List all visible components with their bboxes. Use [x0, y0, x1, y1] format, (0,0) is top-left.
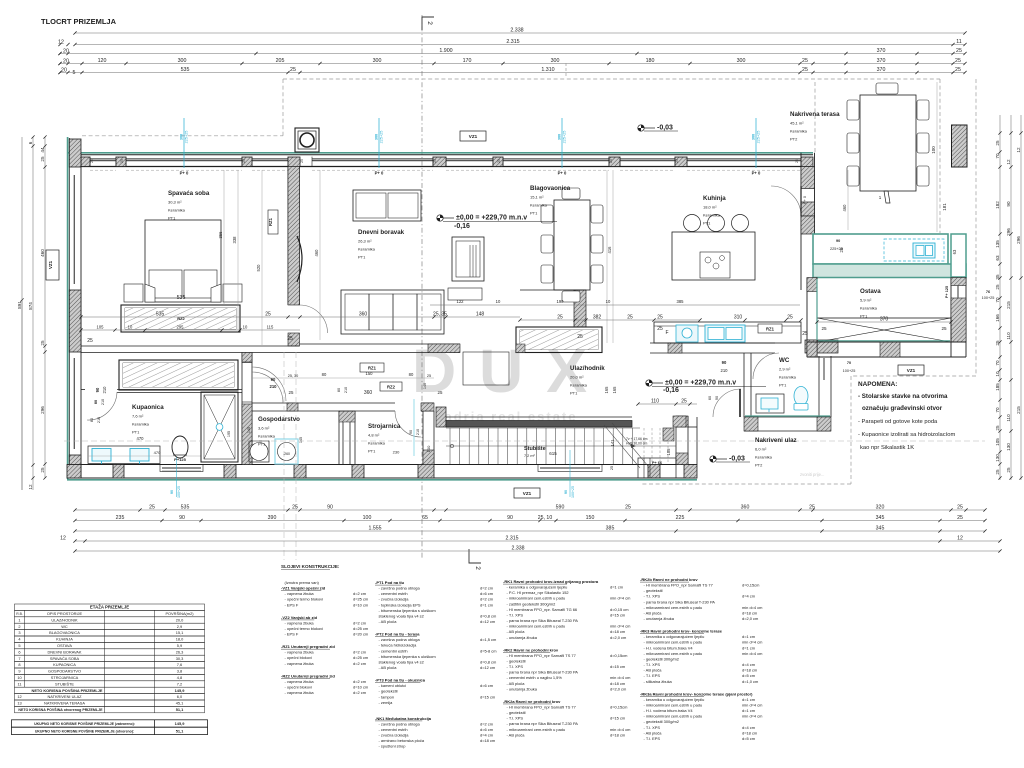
svg-text:WC: WC	[61, 624, 68, 629]
svg-text:- zvučna izolacija: - zvučna izolacija	[379, 733, 410, 738]
svg-text:90: 90	[95, 387, 100, 392]
living small table	[448, 288, 482, 300]
svg-text:20: 20	[61, 68, 67, 74]
svg-text:- HI membrana FPO_npr Sarnafil: - HI membrana FPO_npr Sarnafil TS 77	[507, 653, 576, 658]
svg-text:90: 90	[836, 239, 840, 243]
svg-text:90: 90	[507, 515, 513, 521]
svg-text:90: 90	[271, 377, 276, 382]
svg-text:20,0 m²: 20,0 m²	[570, 375, 584, 380]
svg-text:25: 25	[497, 159, 501, 163]
svg-text:520: 520	[256, 264, 261, 272]
svg-text:25: 25	[242, 159, 246, 163]
svg-text:25, 10: 25, 10	[538, 515, 553, 521]
svg-text:P+ 0: P+ 0	[803, 196, 807, 204]
bedroom door arc	[300, 305, 328, 333]
svg-text:25: 25	[287, 336, 293, 342]
svg-text:25: 25	[40, 156, 45, 162]
svg-text:d=1 cm: d=1 cm	[480, 602, 494, 607]
svg-text:d=18 cm: d=18 cm	[742, 668, 758, 673]
svg-text:356: 356	[218, 231, 223, 239]
svg-text:d=2 cm: d=2 cm	[480, 597, 494, 602]
hodnik-entry wall piece	[688, 426, 697, 428]
svg-text:3,6 m²: 3,6 m²	[258, 426, 270, 431]
svg-text:- opečni termo blokovi: - opečni termo blokovi	[285, 597, 324, 602]
svg-text:d=4 cm: d=4 cm	[480, 733, 494, 738]
svg-text:Spavaća soba: Spavaća soba	[168, 190, 210, 197]
svg-text:- vapnena žbuka: - vapnena žbuka	[285, 591, 315, 596]
bottom dim row 3	[75, 530, 985, 532]
svg-text:- vapnena žbuka: - vapnena žbuka	[285, 661, 315, 666]
svg-text:OPIS PROSTORIJE: OPIS PROSTORIJE	[47, 611, 83, 616]
svg-text:141: 141	[610, 439, 615, 447]
svg-text:590: 590	[556, 505, 565, 511]
svg-text:PT1: PT1	[570, 391, 578, 396]
svg-text:100+25: 100+25	[843, 369, 856, 373]
sofa living room	[341, 290, 444, 334]
svg-text:VZ1: VZ1	[469, 134, 478, 139]
svg-text:90: 90	[170, 490, 174, 494]
svg-text:- toplinska izolacija EPS: - toplinska izolacija EPS	[379, 602, 421, 607]
svg-text:18,0 m²: 18,0 m²	[703, 205, 717, 210]
svg-text:210: 210	[416, 429, 420, 435]
coffee table living	[463, 352, 509, 385]
svg-text:NATKRIVENI ULAZ: NATKRIVENI ULAZ	[47, 694, 82, 699]
svg-text:- T.I. XPS: - T.I. XPS	[507, 612, 524, 617]
left exterior wall	[68, 138, 70, 478]
svg-text:d=15 cm: d=15 cm	[480, 694, 496, 699]
svg-text:d=0,15cm: d=0,15cm	[742, 583, 760, 588]
svg-text:6,0 m²: 6,0 m²	[755, 447, 767, 452]
svg-text:100: 100	[363, 515, 372, 521]
svg-text:KUPAONICA: KUPAONICA	[53, 662, 76, 667]
svg-text:d=6 cm: d=6 cm	[480, 683, 494, 688]
svg-text:190: 190	[557, 299, 565, 304]
svg-text:Keramika: Keramika	[790, 129, 808, 134]
svg-text:25: 25	[300, 159, 304, 163]
bed spavaca soba	[145, 220, 221, 302]
svg-text:Gospodarstvo: Gospodarstvo	[258, 416, 300, 423]
svg-text:- parna brana npr Sika Bitusea: - parna brana npr Sika Bituseal T-230 PA	[507, 618, 579, 623]
stairs landing dashes	[643, 428, 645, 464]
svg-text:- AB ploča: - AB ploča	[507, 732, 526, 737]
svg-text:- Parapeti od gotove kote poda: - Parapeti od gotove kote poda	[858, 419, 938, 425]
svg-text:25: 25	[290, 67, 296, 73]
svg-text:3,8: 3,8	[177, 669, 182, 674]
wall gospodarstvo-strojarnica	[338, 411, 340, 465]
dim row mid 382	[520, 319, 700, 321]
svg-text:kao npr Sikalastik 1K: kao npr Sikalastik 1K	[860, 445, 914, 451]
svg-text:5,9 m²: 5,9 m²	[860, 298, 872, 303]
svg-text:GOSPODARSTVO: GOSPODARSTVO	[48, 669, 81, 674]
svg-text:Keramika: Keramika	[358, 247, 376, 252]
svg-text:100+25: 100+25	[982, 296, 995, 300]
section dashed verticals gospodarstvo	[283, 352, 285, 560]
svg-text:- mikroarmirani cem.estrih u p: - mikroarmirani cem.estrih u padu	[644, 714, 703, 719]
grid line 2 vertical	[421, 15, 423, 558]
svg-text:25: 25	[427, 374, 431, 378]
svg-text:d=1 cm: d=1 cm	[742, 645, 756, 650]
svg-text:25: 25	[995, 340, 1000, 346]
svg-text:HxB 30,00 cm: HxB 30,00 cm	[626, 442, 647, 446]
bottom dim row 2	[75, 520, 985, 522]
svg-text:300: 300	[375, 134, 379, 140]
svg-text:25: 25	[292, 505, 298, 511]
svg-text:360: 360	[359, 312, 368, 318]
svg-text:DNEVNI BORAVAK: DNEVNI BORAVAK	[47, 649, 81, 654]
svg-text:25: 25	[821, 326, 827, 331]
svg-text:- HI membrana FPO_npr. Sarnafi: - HI membrana FPO_npr. Sarnafil TG 66	[507, 607, 578, 612]
svg-text:150: 150	[586, 515, 595, 521]
svg-text:d=18 cm: d=18 cm	[742, 730, 758, 735]
svg-text:Keramika: Keramika	[258, 434, 276, 439]
svg-text:2.338: 2.338	[510, 28, 523, 34]
svg-text:25: 25	[787, 315, 793, 321]
svg-text:d=2,0 cm: d=2,0 cm	[610, 635, 627, 640]
svg-text:230: 230	[393, 450, 400, 455]
level marker terrace	[638, 125, 655, 131]
svg-text:VZ1: VZ1	[48, 260, 53, 269]
stairs steps	[449, 428, 451, 464]
svg-text:30,3 m²: 30,3 m²	[168, 200, 182, 205]
svg-text:300: 300	[373, 58, 382, 64]
svg-text:65: 65	[422, 515, 428, 521]
svg-text:-0,16: -0,16	[454, 223, 470, 230]
svg-text:296: 296	[1016, 236, 1021, 244]
svg-text:1.900: 1.900	[439, 48, 452, 54]
WC sink	[756, 394, 784, 413]
svg-text:min d=4 cm: min d=4 cm	[742, 651, 763, 656]
svg-text:- unutarnja žbuka: - unutarnja žbuka	[507, 686, 538, 691]
svg-text:- mikroarmirani cem.estrih u p: - mikroarmirani cem.estrih u padu	[644, 605, 703, 610]
svg-text:označuju građevinski otvor: označuju građevinski otvor	[862, 405, 943, 412]
svg-text:300: 300	[551, 58, 560, 64]
svg-text:ETAŽA PRIZEMLJE: ETAŽA PRIZEMLJE	[90, 605, 129, 610]
level marker main	[437, 215, 454, 221]
svg-text:25, 35: 25, 35	[433, 312, 447, 318]
svg-text:- P.C. HI premaz_npr Sikalasti: - P.C. HI premaz_npr Sikalastic 152	[507, 590, 569, 595]
svg-text:Keramika: Keramika	[168, 208, 186, 213]
svg-text:-PT3 Pod na tlu - okućnica: -PT3 Pod na tlu - okućnica	[375, 678, 426, 683]
kitchen island sink/hob	[700, 252, 730, 278]
svg-text:- spušteni strop: - spušteni strop	[379, 744, 407, 749]
svg-text:Keramika: Keramika	[860, 306, 878, 311]
svg-text:d=0,15cm: d=0,15cm	[610, 704, 628, 709]
label box VZ1 stairs bottom	[514, 488, 540, 498]
svg-text:182: 182	[995, 201, 1000, 209]
svg-text:PT1: PT1	[358, 255, 366, 260]
svg-text:Dnevni boravak: Dnevni boravak	[358, 229, 405, 236]
kitchen-terrace door arc	[771, 186, 801, 216]
svg-text:145: 145	[299, 437, 303, 443]
grid line 2 bottom marker	[469, 549, 481, 563]
corridor south wall	[252, 402, 395, 404]
svg-text:d=20 cm: d=20 cm	[353, 632, 369, 637]
svg-text:165: 165	[612, 386, 617, 394]
svg-text:13: 13	[17, 701, 21, 706]
dim row kitchen 385	[430, 304, 800, 306]
svg-text:NATKRIVENA TERASA: NATKRIVENA TERASA	[44, 701, 85, 706]
svg-text:- mikroarmirani cem.estrih u p: - mikroarmirani cem.estrih u padu	[644, 651, 703, 656]
svg-text:-0,16: -0,16	[663, 387, 679, 394]
svg-text:d=2 cm: d=2 cm	[353, 620, 367, 625]
svg-text:staklenog voala tipa v4 s2: staklenog voala tipa v4 s2	[379, 613, 424, 618]
svg-text:- EPS F: - EPS F	[285, 602, 299, 607]
left exterior wall teal line	[67, 137, 69, 479]
svg-text:320: 320	[876, 505, 885, 511]
svg-text:- vapnena žbuka: - vapnena žbuka	[285, 620, 315, 625]
kitchen right wall	[800, 153, 802, 216]
svg-text:4,8: 4,8	[177, 675, 182, 680]
svg-text:d=2,0 cm: d=2,0 cm	[742, 616, 759, 621]
svg-text:210: 210	[97, 417, 101, 423]
svg-text:SPAVAĆA SOBA: SPAVAĆA SOBA	[50, 656, 80, 661]
svg-text:Keramika: Keramika	[132, 422, 150, 427]
svg-text:±0,00 = +229,70 m.n.v: ±0,00 = +229,70 m.n.v	[665, 380, 736, 387]
left dimension chain inner	[44, 137, 46, 478]
svg-text:44: 44	[40, 147, 45, 153]
svg-text:- H.I. vodena bitum.traka V4: - H.I. vodena bitum.traka V4	[644, 645, 694, 650]
svg-text:min d=4 cm: min d=4 cm	[742, 702, 763, 707]
svg-text:d=10 cm: d=10 cm	[353, 602, 369, 607]
svg-text:VZ1: VZ1	[907, 368, 916, 373]
svg-text:- AB ploča: - AB ploča	[644, 668, 663, 673]
svg-text:26,3 m²: 26,3 m²	[358, 239, 372, 244]
wall bedroom-living	[287, 167, 289, 306]
svg-text:d=1,5 cm: d=1,5 cm	[480, 637, 497, 642]
svg-text:165: 165	[604, 386, 609, 394]
svg-text:PT1: PT1	[779, 383, 787, 388]
svg-text:470: 470	[137, 436, 145, 441]
svg-text:25: 25	[995, 425, 1000, 431]
wardrobe kupaonica top	[119, 360, 238, 390]
svg-text:d=1 cm: d=1 cm	[742, 634, 756, 639]
svg-text:1.555: 1.555	[369, 526, 382, 532]
svg-text:18,0: 18,0	[176, 637, 184, 642]
gospodarstvo washer dryer	[249, 441, 269, 462]
label box RZ1 corridor	[360, 363, 384, 372]
svg-text:70: 70	[995, 360, 1000, 366]
svg-text:891: 891	[17, 301, 22, 309]
corridor dim row	[252, 377, 434, 379]
terrace dashed boundary	[814, 82, 816, 152]
svg-text:25: 25	[957, 505, 963, 511]
svg-text:-RK2b Ravni ne prohodni krov: -RK2b Ravni ne prohodni krov	[640, 577, 698, 582]
svg-text:- T.I. XPS: - T.I. XPS	[644, 725, 661, 730]
top dimension row detail	[60, 63, 965, 65]
stairs landing hatch right	[673, 416, 686, 427]
svg-text:- vapnena žbuka: - vapnena žbuka	[285, 679, 315, 684]
entry door arc	[713, 389, 741, 417]
svg-text:- mikroarmirani cem.estrih u p: - mikroarmirani cem.estrih u padu	[644, 702, 703, 707]
svg-text:225+25: 225+25	[830, 247, 843, 251]
svg-text:d=12 cm: d=12 cm	[480, 665, 496, 670]
svg-text:150: 150	[366, 371, 374, 376]
svg-text:5: 5	[18, 643, 20, 648]
svg-text:25: 25	[90, 159, 94, 163]
svg-text:- zaštitni geotekstil 300g/m2: - zaštitni geotekstil 300g/m2	[507, 601, 556, 606]
svg-text:25: 25	[802, 58, 808, 64]
svg-text:Blagovaonica: Blagovaonica	[530, 185, 571, 192]
svg-text:zvoniti prije...: zvoniti prije...	[800, 472, 824, 477]
svg-text:80: 80	[90, 418, 94, 422]
svg-text:30,3: 30,3	[176, 656, 184, 661]
teal inner lines ostava	[816, 279, 818, 340]
bottom wall window under stairs	[540, 467, 600, 469]
svg-text:d=1 cm: d=1 cm	[610, 585, 624, 590]
svg-text:Strojarnica: Strojarnica	[368, 423, 401, 430]
svg-text:7,6: 7,6	[177, 662, 182, 667]
svg-text:12: 12	[957, 536, 963, 542]
chimney vent top	[295, 128, 319, 152]
svg-text:- AB ploča: - AB ploča	[507, 681, 526, 686]
svg-text:63: 63	[995, 255, 1000, 261]
svg-text:d=1,0 cm: d=1,0 cm	[742, 679, 759, 684]
bathroom vanity	[88, 446, 160, 464]
svg-text:- cementni estrih: - cementni estrih	[379, 727, 408, 732]
svg-text:d=4 cm: d=4 cm	[742, 725, 756, 730]
top dimension row 2.315	[75, 44, 965, 46]
svg-text:Ulaz/hodnik: Ulaz/hodnik	[570, 365, 605, 372]
svg-text:2: 2	[18, 624, 20, 629]
svg-text:90: 90	[564, 490, 568, 494]
svg-text:d=18 cm: d=18 cm	[610, 681, 626, 686]
gospodarstvo door arc	[252, 372, 283, 403]
svg-text:RZ1: RZ1	[766, 327, 775, 332]
svg-text:25: 25	[627, 315, 633, 321]
svg-text:Nakrivena terasa: Nakrivena terasa	[790, 111, 840, 118]
svg-text:100+25: 100+25	[571, 486, 575, 498]
svg-text:15,1 m²: 15,1 m²	[530, 195, 544, 200]
svg-text:170: 170	[463, 58, 472, 64]
svg-text:535: 535	[177, 295, 186, 301]
svg-text:70: 70	[995, 153, 1000, 159]
svg-text:370: 370	[880, 317, 889, 323]
svg-text:POVRŠINA(m2): POVRŠINA(m2)	[165, 611, 194, 616]
svg-text:Keramika: Keramika	[368, 441, 386, 446]
svg-text:90: 90	[409, 430, 413, 434]
svg-text:25: 25	[681, 399, 687, 405]
svg-text:370: 370	[877, 67, 886, 73]
svg-text:F: F	[665, 330, 668, 336]
svg-text:25: 25	[657, 315, 663, 321]
svg-text:d=5-8 cm: d=5-8 cm	[480, 648, 497, 653]
svg-text:12: 12	[28, 484, 33, 490]
svg-text:- geotekstil 300g/m2: - geotekstil 300g/m2	[644, 719, 679, 724]
svg-text:300: 300	[752, 134, 756, 140]
bottom dim row 1	[75, 509, 985, 511]
svg-text:2: 2	[474, 566, 481, 570]
svg-text:d=15 cm: d=15 cm	[610, 664, 626, 669]
terrace east wall teal	[951, 234, 966, 277]
svg-text:-0,03: -0,03	[657, 125, 673, 132]
svg-text:-0,03: -0,03	[729, 456, 745, 463]
svg-text:min d=4 cm: min d=4 cm	[610, 675, 631, 680]
svg-text:2.315: 2.315	[506, 39, 519, 45]
svg-text:- vapnena žbuka: - vapnena žbuka	[285, 650, 315, 655]
svg-text:296: 296	[40, 406, 45, 414]
svg-text:- Stolarske stavke na otvorima: - Stolarske stavke na otvorima	[858, 393, 948, 400]
svg-text:d=5 cm: d=5 cm	[742, 673, 756, 678]
svg-text:P+ 66: P+ 66	[652, 461, 662, 465]
svg-text:d=12 cm: d=12 cm	[480, 619, 496, 624]
svg-text:min d=4 cm: min d=4 cm	[610, 596, 631, 601]
svg-text:12: 12	[1016, 147, 1021, 153]
svg-text:145: 145	[247, 427, 251, 433]
svg-text:148: 148	[476, 312, 485, 318]
kitchen small sink left	[676, 325, 698, 342]
svg-text:10: 10	[995, 371, 1000, 377]
kitchen counter bottom	[654, 322, 801, 343]
wall kitchen bottom right piece	[805, 340, 838, 353]
svg-text:10: 10	[606, 299, 611, 304]
svg-text:70: 70	[847, 361, 851, 365]
top dimension row 2.338	[75, 32, 965, 34]
bottom exterior wall	[67, 464, 697, 466]
svg-text:- T.I. XPS: - T.I. XPS	[644, 594, 661, 599]
svg-text:PT1: PT1	[860, 314, 868, 319]
svg-text:d=0,8 cm: d=0,8 cm	[480, 613, 497, 618]
svg-text:25: 25	[941, 326, 947, 331]
svg-text:105: 105	[97, 325, 105, 330]
interior dim terrace 100	[936, 82, 938, 232]
interior dim 460 line left	[319, 170, 321, 340]
svg-text:- armirano betonska ploča: - armirano betonska ploča	[379, 738, 425, 743]
svg-text:Keramika: Keramika	[570, 383, 588, 388]
svg-text:d=0,15 cm: d=0,15 cm	[610, 607, 629, 612]
svg-text:195: 195	[227, 431, 231, 437]
strojarnica door arc	[395, 411, 421, 437]
svg-text:15,1: 15,1	[176, 630, 184, 635]
svg-text:d=15 cm: d=15 cm	[610, 612, 626, 617]
svg-text:d=2 cm: d=2 cm	[353, 679, 367, 684]
svg-text:d=18 cm: d=18 cm	[610, 629, 626, 634]
svg-text:145,9: 145,9	[175, 688, 186, 693]
svg-text:25: 25	[995, 469, 1000, 475]
svg-text:- geotekstil: - geotekstil	[379, 689, 398, 694]
svg-text:PT1: PT1	[530, 211, 538, 216]
svg-text:Keramika: Keramika	[530, 203, 548, 208]
svg-text:- mikroarmirani cem.estrih u p: - mikroarmirani cem.estrih u padu	[507, 727, 566, 732]
bedside tables	[124, 284, 143, 302]
kupaonica west door arc	[87, 392, 117, 420]
svg-text:- bitumenska ljepenka s uloško: - bitumenska ljepenka s uloškom	[379, 654, 437, 659]
svg-text:OSTAVA: OSTAVA	[57, 643, 72, 648]
svg-text:- keramika u odgovarajućem lje: - keramika u odgovarajućem ljepilu	[507, 585, 568, 590]
svg-text:105: 105	[666, 448, 671, 456]
terrace summer-kitchen counter teal	[813, 234, 948, 264]
svg-text:d=25 cm: d=25 cm	[353, 626, 369, 631]
svg-text:- H.I. vodena bitum.traka V4: - H.I. vodena bitum.traka V4	[644, 708, 694, 713]
svg-text:25: 25	[956, 48, 962, 54]
svg-text:PT1: PT1	[703, 221, 711, 226]
svg-text:- unutarnja žbuka: - unutarnja žbuka	[644, 616, 675, 621]
bottom dim row 5	[75, 550, 1000, 552]
svg-text:10: 10	[496, 299, 501, 304]
svg-text:KUHINJA: KUHINJA	[56, 637, 73, 642]
level marker hodnik	[646, 380, 663, 386]
WC left wall	[743, 353, 745, 417]
svg-text:20,0: 20,0	[176, 617, 184, 622]
svg-text:d=18 cm: d=18 cm	[480, 738, 496, 743]
svg-text:25: 25	[610, 466, 614, 470]
svg-text:-PT2 Pod na tlu - terasa: -PT2 Pod na tlu - terasa	[375, 632, 420, 637]
svg-text:NETO KORISNA POVŠINA otvorenog: NETO KORISNA POVŠINA otvorenog PRIZEMLJE	[18, 707, 103, 712]
dim wc 110 25	[638, 403, 697, 405]
svg-text:25: 25	[809, 505, 815, 511]
svg-text:R.B.: R.B.	[16, 612, 23, 616]
svg-text:60: 60	[708, 396, 712, 400]
svg-text:225+25: 225+25	[185, 131, 189, 144]
